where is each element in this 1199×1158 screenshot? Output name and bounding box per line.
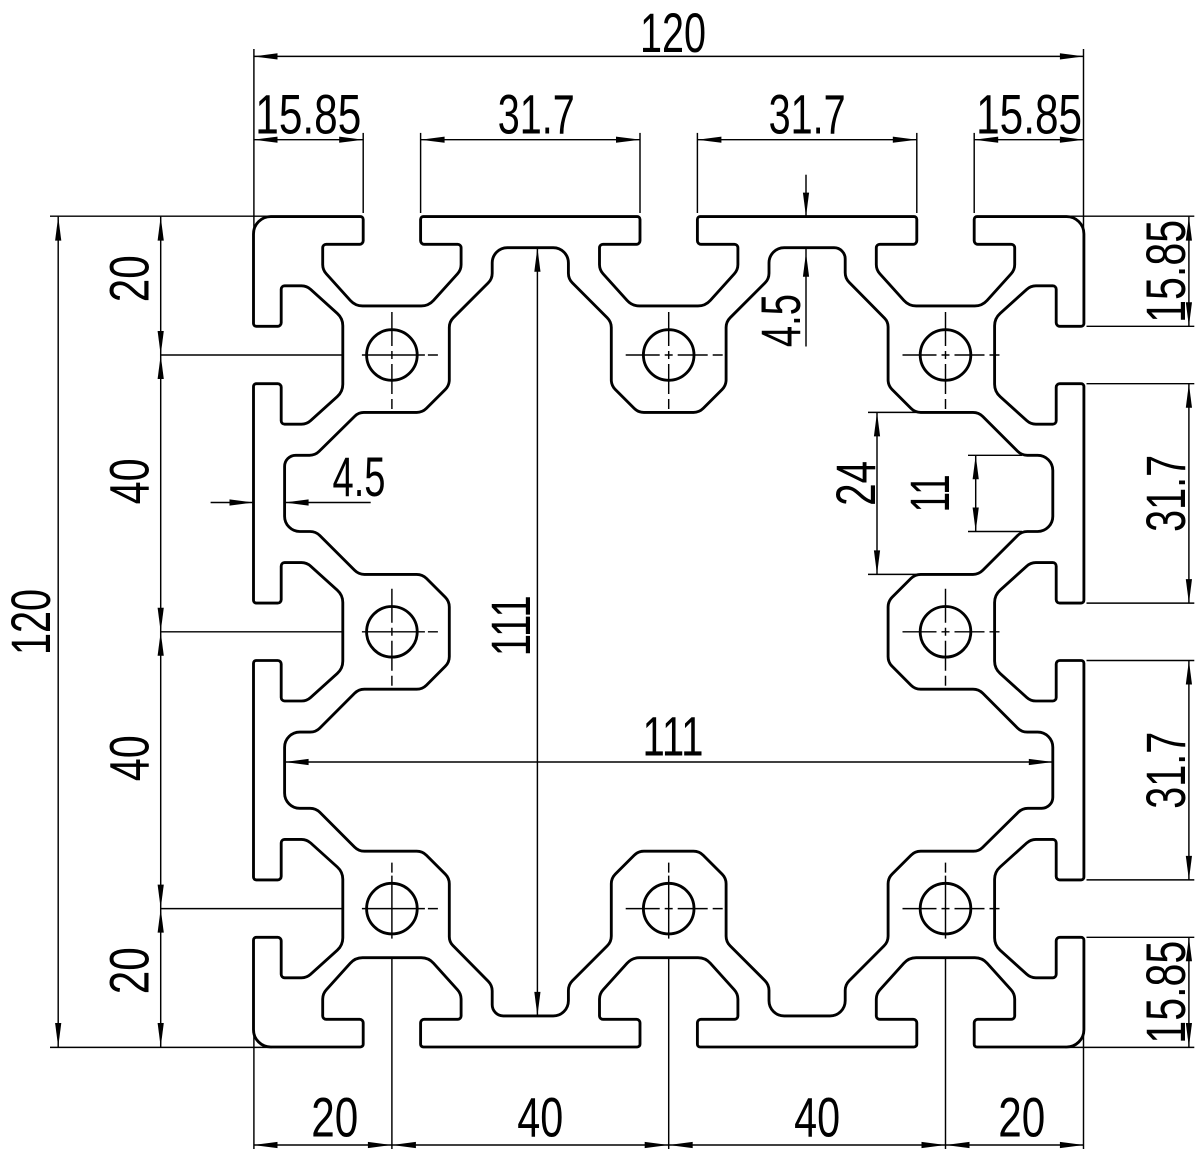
svg-text:15.85: 15.85: [976, 83, 1082, 146]
svg-text:120: 120: [0, 589, 62, 655]
core hole 1 at (20,20): [367, 330, 418, 381]
chained dimensions 20/40/40/20 bottom: [254, 1144, 1084, 1146]
dimension 120 left: [57, 217, 59, 1047]
svg-text:15.85: 15.85: [1134, 941, 1197, 1044]
extension lines right: [1065, 215, 1194, 217]
svg-text:111: 111: [479, 595, 542, 656]
dimension 31.7 right: [1188, 384, 1190, 603]
core hole 4 at (20,60): [367, 607, 418, 658]
dimension 15.85 right: [1188, 937, 1190, 1047]
svg-text:15.85: 15.85: [1134, 220, 1197, 323]
svg-text:31.7: 31.7: [769, 83, 846, 146]
svg-text:11: 11: [898, 474, 961, 512]
svg-text:20: 20: [311, 1086, 358, 1149]
core hole 3 at (100,20): [920, 330, 971, 381]
centerlines for hole at (20,100): [391, 863, 393, 1149]
dimension 15.85 top-left: [254, 139, 364, 141]
svg-text:40: 40: [517, 1086, 563, 1149]
centerlines for hole at (60,100): [668, 863, 670, 1149]
dimension 15.85 right: [1188, 217, 1190, 327]
dimension 15.85 top-right: [974, 139, 1084, 141]
svg-text:4.5: 4.5: [333, 445, 386, 508]
svg-text:20: 20: [998, 1086, 1045, 1149]
centerlines for hole at (20,60): [391, 589, 393, 686]
dimension 11 (pocket): [968, 454, 1022, 456]
core hole 5 at (100,60): [920, 607, 971, 658]
dimension 31.7 top-mid-right: [697, 139, 916, 141]
dimension 120 top: [254, 55, 1084, 57]
dimension 111 vertical: [536, 248, 538, 1016]
svg-text:40: 40: [98, 458, 161, 504]
centerlines for hole at (20,20): [391, 312, 393, 409]
svg-text:15.85: 15.85: [255, 83, 361, 146]
centerlines for hole at (60,20): [668, 312, 670, 409]
profile outer contour with twelve T-slots: [254, 217, 1084, 1047]
core hole 8 at (100,100): [920, 883, 971, 934]
core hole 6 at (20,100): [367, 883, 418, 934]
svg-text:20: 20: [98, 255, 161, 302]
dimension 111 horizontal: [285, 761, 1053, 763]
dimension 4.5 top (wall): [805, 175, 807, 217]
dimension 4.5 left (wall): [211, 502, 254, 504]
extension lines top: [253, 49, 255, 235]
svg-text:111: 111: [643, 705, 704, 768]
core hole 2 at (60,20): [643, 330, 694, 381]
centerlines for hole at (100,60): [945, 589, 947, 686]
dimension 31.7 top-mid-left: [421, 139, 640, 141]
centerlines for hole at (100,100): [945, 863, 947, 1149]
centerlines for hole at (100,20): [945, 312, 947, 409]
svg-text:31.7: 31.7: [1134, 732, 1197, 809]
chained dimensions 20/40/40/20 left: [160, 217, 162, 1047]
extension lines bottom: [253, 1030, 255, 1150]
svg-text:4.5: 4.5: [749, 294, 812, 347]
svg-text:31.7: 31.7: [498, 83, 575, 146]
svg-text:40: 40: [98, 735, 161, 781]
dimension 24 (pocket): [868, 411, 920, 413]
svg-text:24: 24: [824, 461, 887, 506]
dimension 31.7 right: [1188, 661, 1190, 880]
svg-text:31.7: 31.7: [1134, 455, 1197, 532]
svg-text:40: 40: [794, 1086, 840, 1149]
extension lines left: [50, 215, 272, 217]
svg-text:120: 120: [640, 1, 706, 64]
inner cavity contour: [285, 248, 1053, 1016]
svg-text:20: 20: [98, 947, 161, 994]
core hole 7 at (60,100): [643, 883, 694, 934]
